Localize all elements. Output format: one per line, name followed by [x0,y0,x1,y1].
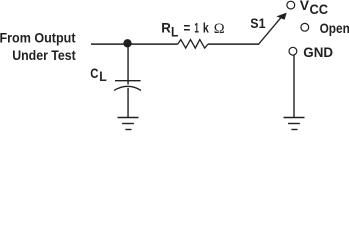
svg-text:=: = [184,20,191,36]
svg-text:S1: S1 [250,15,265,31]
svg-text:GND: GND [303,44,333,60]
resistor RL [178,40,208,49]
svg-text:1: 1 [194,20,199,36]
switch throw: VCC terminal [287,1,295,9]
svg-text:V: V [300,0,310,13]
wire: output to resistor [91,43,178,45]
svg-text:Ω: Ω [214,21,225,37]
svg-text:Under Test: Under Test [12,47,76,63]
svg-text:L: L [99,68,107,84]
switch throw: Open terminal [301,23,309,31]
capacitor CL label [90,65,107,84]
wire: junction down to capacitor [127,43,129,84]
VCC label [300,0,328,17]
node: From Output Under Test label [0,30,76,63]
junction node [123,39,131,47]
capacitor CL top plate [115,80,141,82]
switch throw: GND terminal [289,47,297,55]
svg-text:k: k [203,20,209,36]
capacitor CL curved plate [114,86,141,90]
svg-text:From Output: From Output [0,30,76,46]
svg-text:R: R [161,20,171,36]
svg-text:CC: CC [310,1,329,17]
resistor RL value label [161,20,225,40]
switch S1 arm [259,17,281,44]
wire: capacitor to ground [127,88,129,117]
wire: resistor to switch [208,43,259,45]
wire: GND terminal to ground [293,55,295,117]
svg-text:C: C [90,65,98,81]
svg-text:Open: Open [320,20,349,36]
svg-text:L: L [171,24,179,40]
switch S1 arrowhead [276,13,286,20]
ground (right, below GND) [284,118,305,130]
ground (left, below CL) [118,118,139,130]
